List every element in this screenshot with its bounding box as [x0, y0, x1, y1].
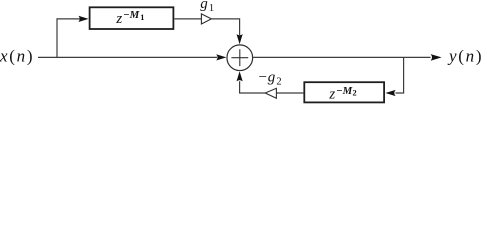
svg-text:x(n): x(n)	[0, 46, 34, 65]
svg-text:y(n): y(n)	[447, 46, 481, 65]
wire main input line	[38, 56, 217, 58]
delay block z^-M2	[304, 82, 384, 102]
arrowhead right into summer	[216, 54, 226, 60]
wire branch up to delay M1	[57, 19, 80, 58]
arrowhead into z^-M1 block	[78, 16, 88, 22]
delay block z^-M1	[90, 7, 174, 29]
wire g1 to summer	[211, 19, 239, 35]
arrowhead down into summer	[237, 34, 243, 44]
wire g2 to summer from below	[240, 81, 266, 93]
gain triangle -g2 (pointing left)	[265, 88, 276, 98]
summer (adder) node	[227, 45, 253, 71]
arrowhead left into z^-M2 block	[385, 90, 395, 96]
arrowhead to y(n)	[431, 54, 442, 61]
wire block2 to gain g2	[276, 92, 304, 94]
arrowhead up into summer	[237, 71, 243, 81]
gain triangle g1	[201, 14, 211, 24]
wire summer to output	[253, 56, 430, 58]
wire feedback down from output	[396, 57, 404, 93]
wire block1 to gain g1	[175, 18, 202, 20]
